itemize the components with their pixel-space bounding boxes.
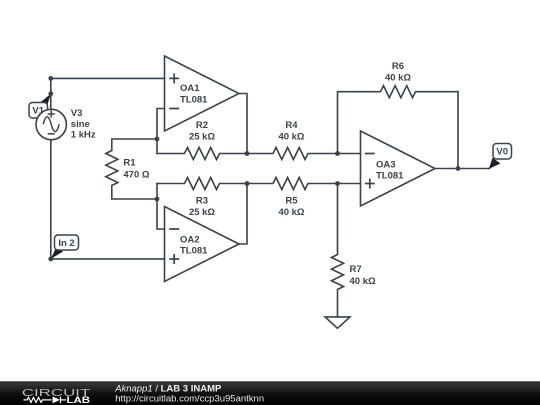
wire node A down to R2 row <box>156 139 158 154</box>
svg-text:V0: V0 <box>496 147 508 158</box>
svg-text:1 kHz: 1 kHz <box>71 129 96 140</box>
footer bar <box>0 381 540 405</box>
resistor R4 <box>247 148 338 160</box>
svg-text:40 kΩ: 40 kΩ <box>278 207 304 218</box>
ground <box>325 317 350 328</box>
svg-text:TL081: TL081 <box>180 246 208 257</box>
svg-text:OA1: OA1 <box>180 83 200 94</box>
svg-text:R7: R7 <box>350 264 362 275</box>
footer logo resistor-diode glyph <box>24 397 67 403</box>
svg-text:25 kΩ: 25 kΩ <box>189 131 215 142</box>
node In 2 flag <box>51 235 79 259</box>
resistor R5 <box>247 178 338 190</box>
node V1 flag <box>29 94 51 118</box>
op-amp OA3 + - symbols <box>365 154 375 189</box>
svg-text:R5: R5 <box>285 196 298 207</box>
op-amp OA1 <box>165 56 240 131</box>
label V3 value <box>71 108 96 140</box>
svg-text:V3: V3 <box>71 108 83 119</box>
svg-text:TL081: TL081 <box>376 171 404 182</box>
svg-text:40 kΩ: 40 kΩ <box>350 276 376 287</box>
resistor R1 <box>106 139 157 199</box>
resistor R6 feedback <box>338 86 459 169</box>
svg-text:25 kΩ: 25 kΩ <box>189 207 215 218</box>
wire OA3 output to V0 <box>435 168 490 170</box>
label OA3 <box>376 160 404 182</box>
svg-text:R2: R2 <box>196 120 208 131</box>
label R1 value <box>123 158 149 181</box>
label R7 value <box>350 264 376 287</box>
svg-text:http://circuitlab.com/ccp3u95a: http://circuitlab.com/ccp3u95antknn <box>115 394 264 405</box>
wire top-left vertical to V3 + terminal <box>50 78 52 109</box>
wire node B up to R3 row <box>156 184 158 200</box>
svg-text:R1: R1 <box>123 158 136 169</box>
op-amp OA1 + - symbols <box>169 73 179 108</box>
op-amp OA2 + - symbols <box>169 229 179 264</box>
svg-text:OA3: OA3 <box>376 160 396 171</box>
svg-text:In 2: In 2 <box>58 238 74 249</box>
label R3 value <box>189 196 215 218</box>
label R6 value <box>385 61 411 83</box>
op-amp OA2 <box>165 207 240 282</box>
wire OA3 + input stub <box>338 183 361 185</box>
svg-text:R6: R6 <box>392 61 404 72</box>
voltage source V3 <box>36 109 66 139</box>
resistor R3 <box>157 178 247 190</box>
resistor R7 <box>332 184 344 317</box>
wire In 2 node to OA2 + input <box>51 258 165 260</box>
svg-text:470 Ω: 470 Ω <box>123 170 149 181</box>
svg-text:40 kΩ: 40 kΩ <box>385 72 411 83</box>
label OA1 <box>180 83 208 106</box>
resistor R2 <box>157 148 247 160</box>
op-amp OA3 <box>361 131 436 206</box>
wire OA3 - input stub <box>338 153 361 155</box>
node V0 flag <box>489 144 512 169</box>
wire OA2 - input stub <box>157 199 165 229</box>
wire OA1 output feedback <box>239 94 247 154</box>
wire OA1 - input stub <box>157 109 165 140</box>
label R5 value <box>278 196 304 218</box>
voltage source V3 sine symbol <box>43 110 59 133</box>
label OA2 <box>180 234 208 256</box>
svg-text:R3: R3 <box>196 196 208 207</box>
wire V1 node to OA1 + input <box>51 77 165 79</box>
svg-text:TL081: TL081 <box>180 95 208 106</box>
label R2 value <box>189 120 215 142</box>
svg-text:LAB: LAB <box>67 395 91 405</box>
wire OA2 output feedback <box>239 184 247 245</box>
svg-text:R4: R4 <box>285 120 298 131</box>
wire V3 - terminal down to In 2 node <box>50 140 52 259</box>
label R4 value <box>278 120 304 142</box>
svg-text:40 kΩ: 40 kΩ <box>278 131 304 142</box>
svg-text:OA2: OA2 <box>180 234 200 245</box>
